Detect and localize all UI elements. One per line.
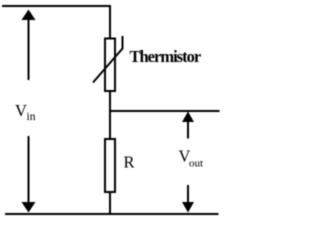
svg-text:in: in [27, 111, 36, 123]
svg-text:R: R [124, 153, 135, 172]
svg-text:V: V [15, 101, 27, 120]
svg-text:Thermistor: Thermistor [130, 47, 201, 66]
svg-text:out: out [189, 158, 203, 170]
